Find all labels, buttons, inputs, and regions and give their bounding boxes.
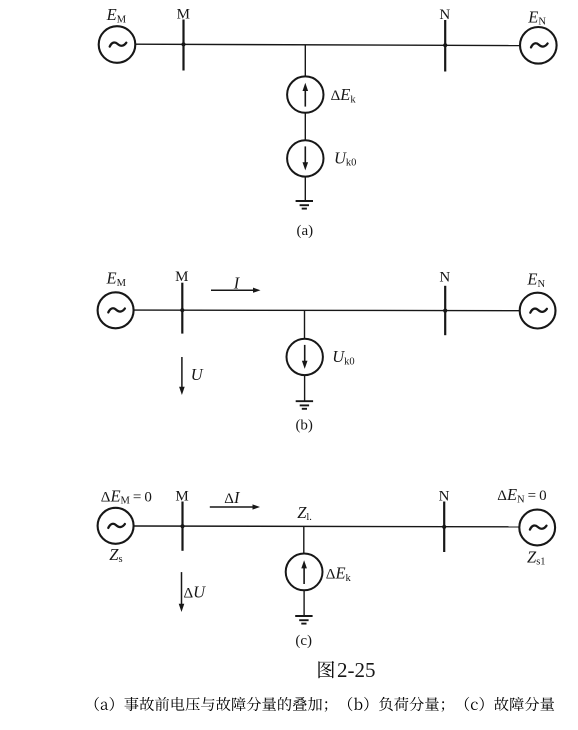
svg-text:ΔI: ΔI <box>224 488 241 507</box>
svg-text:M: M <box>175 269 188 285</box>
svg-text:(b): (b) <box>295 418 313 434</box>
svg-text:2-25: 2-25 <box>337 658 376 682</box>
svg-text:M: M <box>175 489 188 505</box>
svg-text:U: U <box>191 365 204 384</box>
svg-text:N: N <box>439 7 450 23</box>
svg-text:(c): (c) <box>295 633 312 649</box>
svg-text:M: M <box>177 7 190 23</box>
svg-text:N: N <box>439 270 450 286</box>
svg-text:ΔU: ΔU <box>184 583 207 602</box>
svg-text:(a): (a) <box>296 223 313 239</box>
svg-text:N: N <box>439 489 450 505</box>
